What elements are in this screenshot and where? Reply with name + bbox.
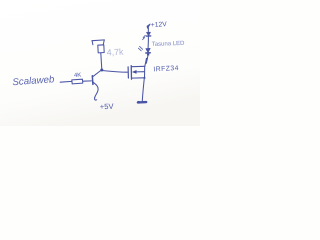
resistor R2 [98, 45, 104, 53]
resistor R1 [72, 79, 83, 84]
LED D2 emission arrows [138, 46, 142, 50]
mosfet Q2 IRFZ34 [128, 59, 146, 79]
node junction [100, 69, 103, 72]
middle stub with arrow [135, 71, 144, 73]
drain stub [132, 65, 145, 67]
resistor R2 feed wire [92, 39, 104, 42]
transistor Q1 base bar [91, 76, 94, 85]
transistor Q1 emitter [93, 82, 98, 97]
resistor R2 feed tick [91, 41, 94, 45]
source stub [132, 77, 145, 79]
LED D2 [146, 48, 150, 55]
svg-text:4,7k: 4,7k [107, 47, 125, 58]
wire feed to R2 [102, 40, 105, 45]
wire emitter end loop [95, 97, 97, 100]
source corner blob [144, 77, 146, 79]
node +12V terminal arrow [147, 24, 150, 28]
ground [138, 101, 146, 104]
wire junction to gate [103, 71, 127, 73]
right vertical [144, 66, 146, 78]
wire LED D1 to LED D2 [147, 37, 149, 49]
drain riser [145, 59, 147, 66]
svg-text:4K: 4K [74, 73, 82, 80]
wire source to ground [142, 78, 144, 101]
svg-text:IRFZ34: IRFZ34 [153, 65, 179, 73]
transistor Q1 collector [93, 70, 102, 77]
svg-text:+5V: +5V [100, 102, 115, 112]
wire +12V to LED D1 [147, 28, 149, 32]
wire R2 to junction [101, 53, 102, 69]
wire R1 to base [83, 80, 91, 82]
LED D1 [143, 32, 151, 39]
gate bar [127, 67, 129, 78]
wire LED D2 to drain [146, 56, 148, 64]
svg-text:+12V: +12V [151, 21, 168, 29]
channel bar [130, 66, 132, 80]
svg-text:Tasuna LED: Tasuna LED [152, 41, 186, 48]
wire input to R1 [60, 80, 71, 83]
node drain junction blob [146, 58, 148, 60]
